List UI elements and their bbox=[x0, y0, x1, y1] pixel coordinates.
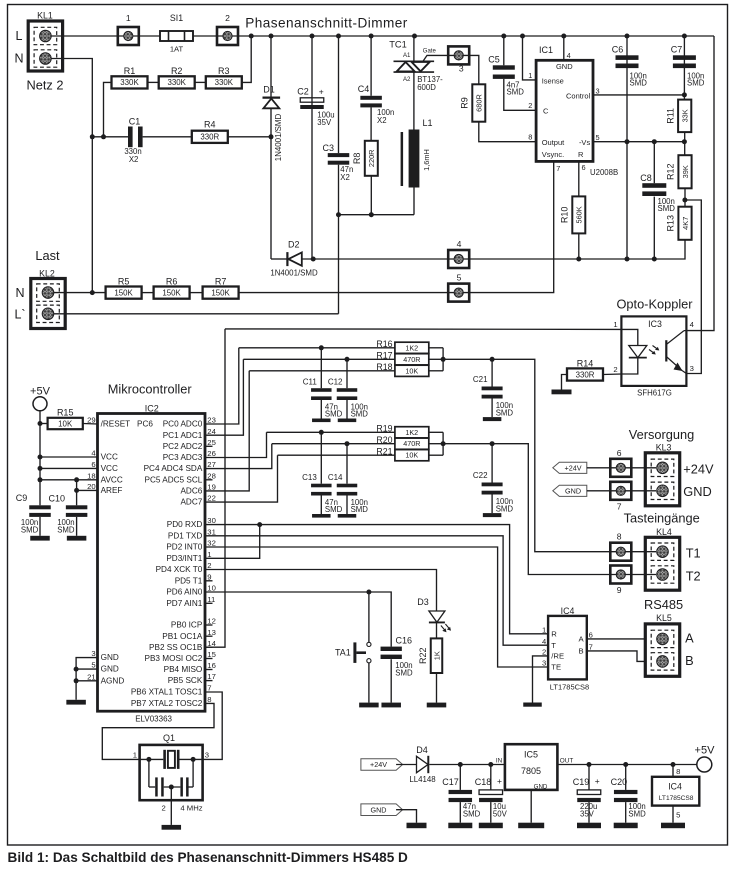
diode D4 bbox=[417, 756, 429, 773]
wire R22 gnd bbox=[436, 673, 438, 703]
wire pin24 riser bbox=[205, 359, 243, 435]
svg-text:+: + bbox=[319, 87, 324, 97]
ground C16 bbox=[381, 703, 401, 708]
svg-text:4 MHz: 4 MHz bbox=[180, 804, 202, 813]
svg-text:Versorgung: Versorgung bbox=[629, 427, 694, 442]
wire C14 bottom bbox=[346, 496, 348, 515]
svg-text:R19: R19 bbox=[376, 424, 392, 434]
svg-text:C16: C16 bbox=[396, 635, 413, 645]
junction top rail bbox=[310, 34, 315, 39]
svg-text:TE: TE bbox=[551, 663, 561, 672]
svg-text:PD4 XCK T0: PD4 XCK T0 bbox=[156, 565, 203, 574]
svg-text:L`: L` bbox=[14, 308, 25, 322]
svg-text:VCC: VCC bbox=[101, 453, 118, 462]
junction C3 junction bbox=[336, 212, 341, 217]
supply +5V circle bbox=[33, 397, 47, 411]
wire flag to pad6 bbox=[587, 467, 611, 469]
net flag +24V bbox=[553, 462, 587, 473]
svg-text:14: 14 bbox=[207, 639, 216, 648]
wire C3 bottom bbox=[338, 165, 340, 215]
svg-text:+: + bbox=[595, 776, 600, 786]
svg-text:GND: GND bbox=[101, 665, 119, 674]
svg-text:2: 2 bbox=[162, 804, 166, 813]
svg-text:5: 5 bbox=[91, 661, 95, 670]
wire pad6 to KL3 bbox=[631, 467, 656, 469]
svg-text:SMD: SMD bbox=[21, 525, 39, 534]
wire D4 to IC5 bbox=[429, 764, 505, 766]
ground IC5 bbox=[518, 823, 544, 829]
svg-text:1K2: 1K2 bbox=[405, 428, 418, 437]
svg-text:KL5: KL5 bbox=[656, 613, 672, 623]
RS485 IC4 power box bbox=[652, 777, 699, 806]
svg-text:C14: C14 bbox=[328, 473, 343, 482]
svg-text:PB4 MISO: PB4 MISO bbox=[164, 665, 203, 674]
svg-text:15: 15 bbox=[207, 650, 216, 659]
svg-text:A: A bbox=[578, 635, 584, 644]
svg-text:R5: R5 bbox=[118, 276, 130, 286]
wire R3 to rail bbox=[242, 36, 251, 82]
junction -Vs bottom x C8 bbox=[652, 257, 657, 262]
svg-text:R20: R20 bbox=[376, 435, 392, 445]
ground R22 bbox=[427, 703, 447, 708]
svg-text:PB6 XTAL1 TOSC1: PB6 XTAL1 TOSC1 bbox=[131, 688, 203, 697]
junction top rail bbox=[520, 34, 525, 39]
wire pin19 riser bbox=[205, 371, 249, 491]
svg-text:28: 28 bbox=[207, 471, 216, 480]
wire pad1 to SI1 bbox=[139, 35, 160, 37]
svg-text:R10: R10 bbox=[560, 207, 570, 224]
svg-text:PB0 ICP: PB0 ICP bbox=[171, 621, 203, 630]
capacitor C1 bbox=[128, 127, 143, 148]
svg-text:600D: 600D bbox=[417, 83, 436, 92]
supply +5V circle bottom bbox=[697, 757, 712, 772]
wire pad7 to KL3 bbox=[631, 490, 656, 492]
ground Q1 bbox=[162, 825, 182, 830]
svg-text:PB1 OC1A: PB1 OC1A bbox=[162, 632, 203, 641]
wire pin32 PD2 bbox=[205, 547, 548, 667]
svg-text:3: 3 bbox=[91, 649, 95, 658]
svg-text:1: 1 bbox=[528, 71, 532, 80]
junction IC4b node bbox=[671, 762, 676, 767]
terminal block KL5 bbox=[645, 624, 679, 676]
ground C17 bbox=[448, 823, 472, 829]
wire R15 left bbox=[40, 423, 48, 425]
wire L1 bottom bbox=[413, 188, 415, 215]
junction Control junction bbox=[682, 92, 687, 97]
svg-text:PC0 ADC0: PC0 ADC0 bbox=[163, 420, 203, 429]
svg-text:C5: C5 bbox=[488, 54, 500, 64]
pad 1 bbox=[118, 27, 139, 45]
wire -Vs net bbox=[593, 141, 684, 143]
svg-text:X2: X2 bbox=[377, 116, 387, 125]
pad 2 bbox=[217, 27, 238, 45]
svg-text:680R: 680R bbox=[475, 94, 484, 112]
junction C11 node bbox=[319, 345, 324, 350]
wire KL2 L' wire bbox=[54, 313, 339, 315]
svg-text:+24V: +24V bbox=[370, 760, 387, 769]
svg-text:Netz 2: Netz 2 bbox=[27, 78, 64, 93]
resistor R14 bbox=[567, 359, 603, 381]
svg-text:ELV03363: ELV03363 bbox=[135, 715, 172, 724]
junction gnd node2 bbox=[74, 678, 79, 683]
svg-text:SMD: SMD bbox=[351, 505, 369, 514]
svg-text:D2: D2 bbox=[288, 240, 300, 250]
ground C11 bbox=[312, 419, 331, 423]
capacitor C18 bbox=[479, 790, 503, 802]
wire IC1 pin4 bbox=[563, 36, 565, 60]
capacitor C7 bbox=[673, 55, 696, 68]
wire D3 to R22 bbox=[436, 622, 438, 638]
resistor R12 bbox=[666, 155, 692, 188]
junction C14 node bbox=[345, 441, 350, 446]
wire C8 stem bbox=[653, 142, 655, 184]
svg-text:Tasteingänge: Tasteingänge bbox=[624, 511, 700, 526]
svg-text:5: 5 bbox=[676, 811, 680, 820]
svg-text:IC4: IC4 bbox=[668, 782, 682, 792]
svg-text:330R: 330R bbox=[576, 370, 595, 379]
wire flag to D4 bbox=[396, 764, 416, 766]
junction R8 junction bbox=[369, 212, 374, 217]
svg-text:SMD: SMD bbox=[658, 204, 676, 213]
svg-text:470R: 470R bbox=[403, 355, 420, 364]
resistor R22 bbox=[418, 638, 442, 673]
ground C21 bbox=[483, 417, 502, 421]
capacitor C6 bbox=[616, 55, 639, 68]
svg-text:R22: R22 bbox=[418, 647, 428, 664]
svg-text:SFH617G: SFH617G bbox=[637, 389, 672, 398]
wire R11 top bbox=[683, 95, 685, 100]
capacitor C20 bbox=[614, 790, 638, 802]
svg-text:3: 3 bbox=[459, 64, 464, 74]
resistor R18 bbox=[376, 362, 428, 376]
resistor R15 bbox=[48, 408, 83, 430]
svg-text:R: R bbox=[551, 629, 557, 638]
svg-text:R12: R12 bbox=[666, 163, 676, 180]
svg-text:PD2 INT0: PD2 INT0 bbox=[166, 543, 202, 552]
wire IC4 B wire bbox=[587, 651, 656, 662]
pad 8 bbox=[610, 543, 631, 561]
svg-text:Output: Output bbox=[542, 138, 565, 147]
junction -Vs x C6 bbox=[625, 139, 630, 144]
junction AREF stub bot bbox=[74, 488, 79, 493]
svg-text:IC2: IC2 bbox=[145, 403, 159, 413]
IC2 unconnected pin stubs bbox=[205, 445, 213, 447]
svg-text:GND: GND bbox=[683, 484, 711, 499]
wire pin2 PD4 to D3 bbox=[205, 570, 437, 612]
svg-text:150K: 150K bbox=[211, 288, 230, 297]
wire IC4 A wire bbox=[587, 638, 656, 640]
wire AREF wire bbox=[77, 489, 98, 491]
wire R16 left bbox=[239, 347, 395, 349]
wire opto pin1 wire bbox=[225, 328, 621, 331]
wire D2 left bbox=[271, 258, 287, 260]
wire C1 row left bbox=[92, 136, 128, 138]
svg-text:4: 4 bbox=[457, 239, 462, 249]
svg-text:8: 8 bbox=[617, 532, 622, 542]
junction VCC node bbox=[38, 455, 43, 460]
wire D1 net bbox=[270, 36, 272, 259]
wire Q1 gnd bbox=[170, 800, 172, 825]
svg-text:6: 6 bbox=[91, 460, 95, 469]
junction top rail bbox=[369, 34, 374, 39]
wire TC1 top bbox=[413, 36, 415, 61]
resistor R21 bbox=[376, 446, 428, 460]
svg-text:23: 23 bbox=[207, 416, 216, 425]
svg-text:X2: X2 bbox=[129, 155, 139, 164]
wire L' riser bbox=[338, 215, 340, 314]
junction KL2 N junction bbox=[90, 290, 95, 295]
wire R1-R2 bbox=[148, 81, 159, 83]
wire R21 left bbox=[278, 454, 395, 456]
svg-text:12: 12 bbox=[207, 617, 216, 626]
junction top rail bbox=[501, 34, 506, 39]
wire AGND pin21 bbox=[76, 680, 97, 682]
svg-text:8: 8 bbox=[676, 767, 680, 776]
svg-text:35V: 35V bbox=[317, 118, 332, 127]
svg-text:LL4148: LL4148 bbox=[409, 775, 436, 784]
svg-text:R4: R4 bbox=[204, 119, 216, 129]
junction R11-R12 junction bbox=[682, 139, 687, 144]
wire Isense bbox=[523, 36, 537, 80]
capacitor C22 bbox=[482, 483, 503, 495]
wire rail to opto pin4 bbox=[686, 36, 714, 331]
ground C14 bbox=[338, 514, 357, 518]
wire pin31 PD1 bbox=[205, 536, 548, 645]
svg-text:1: 1 bbox=[126, 13, 131, 23]
resistor R17 bbox=[376, 351, 428, 365]
svg-text:1K2: 1K2 bbox=[405, 343, 418, 352]
svg-text:20: 20 bbox=[87, 482, 96, 491]
svg-text:SMD: SMD bbox=[325, 410, 343, 419]
wire C5 to IC1 pin2 bbox=[504, 79, 536, 110]
wire C19 stem bbox=[588, 765, 590, 790]
wire C14 stem bbox=[346, 444, 348, 484]
wire R12-R13 bbox=[684, 188, 686, 206]
svg-text:9: 9 bbox=[207, 572, 211, 581]
wire C7 stem bbox=[683, 36, 685, 95]
resistor R20 bbox=[376, 435, 428, 449]
microcontroller IC2 box bbox=[98, 414, 206, 712]
wire IC5 gnd bbox=[530, 790, 532, 823]
wire pad9 to KL4 bbox=[631, 574, 656, 576]
svg-text:GND: GND bbox=[534, 783, 548, 790]
svg-text:C11: C11 bbox=[303, 378, 318, 387]
svg-text:GND: GND bbox=[556, 62, 573, 71]
net flag GND bottom bbox=[361, 804, 403, 816]
svg-text:25: 25 bbox=[207, 438, 216, 447]
svg-text:19: 19 bbox=[207, 483, 216, 492]
svg-text:IN: IN bbox=[496, 757, 503, 764]
wire C5 stem bbox=[503, 36, 505, 65]
regulator IC5 box bbox=[505, 744, 558, 790]
svg-text:6: 6 bbox=[617, 448, 622, 458]
pad 9 bbox=[610, 566, 631, 584]
crystal Q1 box bbox=[140, 745, 203, 800]
wire pad8 to KL4 bbox=[631, 551, 656, 553]
junction C21 node bbox=[490, 357, 495, 362]
svg-text:+24V: +24V bbox=[683, 461, 714, 476]
resistor R7 bbox=[203, 276, 239, 298]
svg-text:SMD: SMD bbox=[507, 88, 525, 97]
svg-text:PC4 ADC4 SDA: PC4 ADC4 SDA bbox=[144, 464, 203, 473]
wire C6 stem bbox=[626, 36, 628, 259]
junction -Vs bottom x C6 bbox=[625, 257, 630, 262]
junction C13 node bbox=[319, 430, 324, 435]
svg-text:39K: 39K bbox=[681, 165, 690, 178]
svg-text:C20: C20 bbox=[611, 777, 628, 787]
svg-text:AGND: AGND bbox=[101, 676, 125, 685]
svg-text:OUT: OUT bbox=[560, 757, 574, 764]
wire C10 stem bbox=[76, 490, 78, 505]
LED D3 bbox=[429, 611, 451, 632]
svg-text:30: 30 bbox=[207, 516, 216, 525]
wire C4 to R8 bbox=[370, 107, 372, 140]
svg-text:R8: R8 bbox=[352, 153, 362, 165]
svg-text:L: L bbox=[16, 29, 23, 43]
wire R17 right bbox=[429, 358, 443, 360]
ground C9 bbox=[30, 536, 50, 541]
wire R1 left bbox=[104, 82, 111, 136]
svg-text:3: 3 bbox=[542, 659, 546, 668]
svg-text:A1: A1 bbox=[403, 52, 411, 59]
svg-text:KL4: KL4 bbox=[656, 527, 672, 537]
wire flag to pad7 bbox=[587, 490, 611, 492]
junction PD6 node bbox=[366, 590, 371, 595]
terminal block KL3 bbox=[645, 453, 679, 506]
junction top rail bbox=[269, 34, 274, 39]
wire R15 to RESET bbox=[83, 423, 98, 426]
wire R4 to D1 bbox=[228, 136, 271, 138]
svg-text:C22: C22 bbox=[473, 471, 488, 480]
svg-text:330K: 330K bbox=[167, 78, 186, 87]
junction C18 node bbox=[488, 762, 493, 767]
wire gnd flag wire bbox=[396, 810, 416, 823]
wire C13 stem bbox=[320, 432, 322, 483]
svg-text:2: 2 bbox=[207, 561, 211, 570]
ground R14 bbox=[552, 390, 572, 395]
wire TA1 stem bbox=[368, 592, 370, 642]
wire L to pad 1 bbox=[51, 35, 118, 37]
svg-text:IC1: IC1 bbox=[539, 45, 553, 55]
wire R21 right bbox=[429, 454, 443, 456]
wire GND pin5 bbox=[76, 668, 97, 670]
svg-text:18: 18 bbox=[87, 471, 96, 480]
wire C16 bottom bbox=[390, 659, 392, 702]
opto IC3 internals bbox=[621, 329, 686, 374]
wire SI1 to pad 2 bbox=[193, 35, 217, 37]
svg-text:Last: Last bbox=[35, 248, 60, 263]
svg-text:SMD: SMD bbox=[57, 525, 75, 534]
diode D2 bbox=[287, 252, 301, 266]
svg-text:B: B bbox=[578, 647, 583, 656]
svg-text:9: 9 bbox=[617, 585, 622, 595]
wire AVCC wire bbox=[40, 479, 98, 481]
svg-text:1: 1 bbox=[133, 751, 137, 760]
svg-text:LT1785CS8: LT1785CS8 bbox=[659, 795, 694, 802]
svg-text:2: 2 bbox=[528, 101, 532, 110]
svg-text:C18: C18 bbox=[475, 777, 492, 787]
svg-text:C1: C1 bbox=[129, 116, 141, 126]
svg-text:R11: R11 bbox=[665, 108, 675, 124]
resistor R11 bbox=[665, 100, 691, 133]
svg-text:T: T bbox=[551, 641, 556, 650]
svg-text:PD0 RXD: PD0 RXD bbox=[167, 520, 203, 529]
net flag GND bbox=[553, 485, 587, 496]
junction PD0 node bbox=[257, 522, 262, 527]
svg-text:D3: D3 bbox=[417, 597, 429, 607]
svg-text:330R: 330R bbox=[200, 133, 219, 142]
junction D2 anode junction bbox=[311, 257, 316, 262]
svg-text:4K7: 4K7 bbox=[681, 217, 690, 230]
svg-text:+24V: +24V bbox=[565, 463, 582, 472]
wire stack tie bbox=[442, 348, 444, 371]
svg-text:IC4: IC4 bbox=[561, 606, 575, 616]
svg-text:4: 4 bbox=[567, 51, 571, 60]
wire N net bbox=[51, 59, 93, 293]
capacitor C14 bbox=[337, 484, 358, 496]
svg-text:10K: 10K bbox=[405, 366, 418, 375]
svg-text:24: 24 bbox=[207, 427, 216, 436]
junction AVCC node bbox=[38, 477, 43, 482]
svg-text:GND: GND bbox=[565, 486, 581, 495]
svg-text:27: 27 bbox=[207, 460, 216, 469]
junction top rail bbox=[625, 34, 630, 39]
wire R10 bottom bbox=[578, 233, 580, 259]
wire C16 stem bbox=[390, 646, 392, 648]
junction -Vs x C8 bbox=[652, 139, 657, 144]
svg-text:33K: 33K bbox=[681, 109, 690, 122]
svg-text:A2: A2 bbox=[403, 76, 411, 83]
svg-text:/RE: /RE bbox=[551, 652, 564, 661]
wire snubber junction bbox=[339, 214, 415, 216]
ground IC4b bbox=[661, 823, 685, 829]
push button TA1 bbox=[353, 642, 371, 663]
svg-text:8: 8 bbox=[207, 695, 211, 704]
svg-text:150K: 150K bbox=[114, 288, 133, 297]
svg-text:7805: 7805 bbox=[521, 766, 541, 776]
wire C19 bottom bbox=[588, 802, 590, 823]
wire C22 bottom bbox=[491, 494, 493, 513]
svg-text:SI1: SI1 bbox=[170, 13, 183, 23]
pad 4 bbox=[448, 250, 469, 268]
wire C8 bottom bbox=[653, 197, 655, 259]
wire C22 stem bbox=[491, 444, 493, 483]
svg-text:IC3: IC3 bbox=[648, 319, 662, 329]
svg-text:GND: GND bbox=[371, 805, 387, 814]
svg-text:470R: 470R bbox=[403, 439, 420, 448]
wire IC4b pin8 bbox=[672, 765, 674, 777]
junction R12-R13 junction bbox=[682, 198, 687, 203]
wire C12 stem bbox=[346, 359, 348, 388]
svg-text:A: A bbox=[685, 631, 694, 646]
svg-text:C9: C9 bbox=[16, 493, 28, 503]
svg-text:R9: R9 bbox=[460, 97, 470, 109]
wire pin26 riser bbox=[205, 432, 267, 457]
svg-text:C10: C10 bbox=[49, 494, 66, 504]
wire Vsync net bbox=[469, 161, 553, 292]
svg-text:5: 5 bbox=[457, 272, 462, 282]
svg-text:C19: C19 bbox=[573, 777, 590, 787]
resistor R5 bbox=[106, 276, 142, 298]
svg-text:10K: 10K bbox=[58, 419, 73, 428]
svg-text:B: B bbox=[685, 653, 694, 668]
capacitor C11 bbox=[311, 388, 332, 400]
wire pin23 riser bbox=[205, 348, 239, 424]
capacitor C8 bbox=[642, 183, 666, 196]
wire R5-R6 bbox=[142, 292, 154, 294]
svg-text:4: 4 bbox=[91, 449, 96, 458]
svg-text:PD6 AIN0: PD6 AIN0 bbox=[166, 588, 202, 597]
